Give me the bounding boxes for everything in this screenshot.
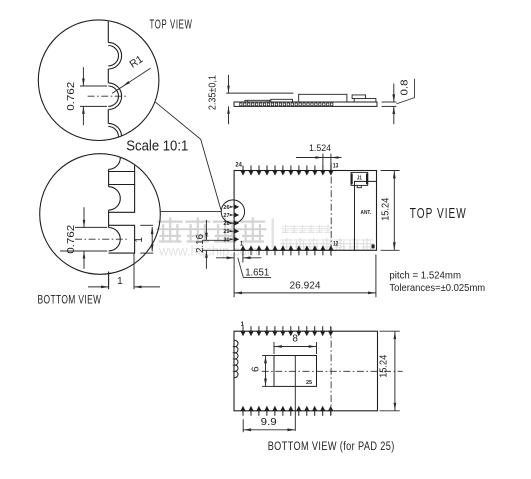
- svg-text:1: 1: [117, 276, 123, 287]
- side view component 2: [271, 99, 293, 102]
- svg-text:15.24: 15.24: [379, 354, 390, 377]
- svg-text:1.651: 1.651: [245, 267, 269, 278]
- dimension 0.8 (PCB thickness): [382, 101, 397, 103]
- svg-text:27: 27: [223, 213, 229, 219]
- watermark small line 1 华强集团旗下: [282, 225, 290, 232]
- pad edge extension lines (detail A): [80, 85, 107, 87]
- hole extent lines (detail B): [75, 226, 107, 228]
- board edge line (detail A): [107, 20, 109, 43]
- bottom view horizontal centerline: [262, 370, 403, 372]
- centerline (detail B): [75, 238, 128, 240]
- dimension 0.762 (detail A): [82, 67, 84, 86]
- svg-text:BOTTOM VIEW (for PAD 25): BOTTOM VIEW (for PAD 25): [268, 441, 395, 453]
- svg-text:26.924: 26.924: [290, 280, 321, 292]
- detail circle A (top view of castellation, scale 10:1): [38, 20, 159, 141]
- board edge line (detail B): [108, 169, 110, 186]
- side view component 1: [245, 100, 270, 102]
- bottom view top edge castellations: [242, 326, 244, 333]
- svg-text:0.8: 0.8: [400, 79, 411, 95]
- svg-text:12: 12: [333, 241, 339, 247]
- svg-text:Tolerances=±0.025mm: Tolerances=±0.025mm: [389, 282, 485, 294]
- dimension 1 vertical (detail B): [140, 224, 153, 226]
- svg-text:TOP VIEW: TOP VIEW: [410, 206, 467, 222]
- svg-text:0.762: 0.762: [66, 81, 77, 111]
- castellation half-holes (detail B): [109, 146, 121, 169]
- callout circle on main view pins 26-27: [221, 200, 244, 223]
- centerline near antenna (main view): [330, 163, 332, 257]
- pad gap closing line (detail B): [134, 172, 136, 185]
- svg-text:8: 8: [292, 334, 298, 345]
- svg-text:28: 28: [223, 221, 230, 227]
- dimension 2.35±0.1: [226, 92, 293, 94]
- watermark divider bar: [272, 219, 274, 248]
- side view component 3 (shield): [299, 94, 347, 102]
- leader line from detail circle A: [155, 102, 221, 210]
- svg-text:TOP VIEW: TOP VIEW: [150, 17, 193, 31]
- dimension 1.524 pitch (top): [296, 157, 342, 159]
- pad 25 center line vertical: [294, 356, 296, 431]
- dimension 2.16 (left): [203, 239, 230, 241]
- dimension 1 horizontal (detail B): [88, 286, 108, 288]
- bottom view bottom edge castellations: [242, 409, 244, 416]
- svg-text:29: 29: [223, 229, 230, 235]
- svg-text:J1: J1: [357, 176, 362, 182]
- bottom view vertical centerline: [330, 327, 332, 415]
- dimension 0.762 (detail B): [83, 207, 85, 227]
- svg-text:pitch = 1.524mm: pitch = 1.524mm: [389, 269, 461, 281]
- svg-text:24: 24: [235, 163, 242, 169]
- centerline (detail A): [88, 95, 129, 97]
- svg-text:15.24: 15.24: [380, 197, 391, 220]
- dimension 1.651: [233, 252, 235, 297]
- svg-text:25: 25: [306, 380, 312, 386]
- svg-text:13: 13: [333, 163, 339, 169]
- svg-text:2.35±0,1: 2.35±0,1: [208, 75, 219, 110]
- side view PCB body: [234, 102, 377, 106]
- bottom view module outline: [234, 331, 378, 411]
- pad right edge extension (detail B): [133, 253, 135, 289]
- connector J1: [351, 172, 368, 185]
- dimension 15.24 (bottom view): [380, 330, 400, 332]
- svg-text:1: 1: [134, 237, 145, 243]
- dimension 26.924 (bottom): [375, 255, 377, 298]
- svg-text:2.16: 2.16: [195, 234, 206, 253]
- svg-text:9.9: 9.9: [261, 417, 277, 428]
- svg-text:Scale 10:1: Scale 10:1: [126, 139, 188, 155]
- dimension 9.9: [242, 419, 244, 432]
- side view castellation pads row: [240, 103, 333, 106]
- main top view module outline: [234, 171, 376, 251]
- radius leader R1 (detail A): [112, 68, 151, 93]
- leader line from detail circle B: [160, 211, 221, 213]
- bottom pads (detail B): [109, 144, 135, 172]
- pad 25 rectangle: [274, 356, 317, 387]
- bottom view left edge castellations (coil edge): [234, 340, 238, 377]
- svg-text:BOTTOM VIEW: BOTTOM VIEW: [38, 295, 102, 307]
- dimension 15.24 (main view right): [381, 170, 400, 172]
- svg-text:1: 1: [241, 322, 245, 328]
- edge line extension below circle (detail B): [108, 272, 110, 290]
- svg-text:6: 6: [251, 366, 262, 372]
- antenna area box: [355, 181, 377, 250]
- watermark small line 2 元器件交易商城: [281, 239, 293, 250]
- svg-text:ANT.: ANT.: [361, 210, 372, 216]
- svg-text:0.762: 0.762: [66, 224, 77, 254]
- svg-text:26: 26: [223, 205, 230, 211]
- svg-text:R1: R1: [127, 53, 145, 70]
- J1 bottom tab: [357, 185, 361, 187]
- bottom edge castellations pins 1-12: [242, 249, 244, 256]
- dimension 6 (pad height): [262, 355, 274, 357]
- left edge castellations pins 26-30: [234, 204, 239, 210]
- top edge castellations pins 24-13: [242, 166, 244, 173]
- antenna feed marker (filled square): [372, 244, 375, 248]
- side view component 4 (connector): [352, 95, 376, 102]
- detail circle B (bottom view of castellation): [40, 154, 161, 275]
- svg-text:1.524: 1.524: [309, 143, 331, 154]
- dimension 8 (pad width): [273, 342, 275, 354]
- watermark big text 华强芯城: [158, 219, 184, 242]
- castellation half-holes (detail A): [108, 42, 121, 69]
